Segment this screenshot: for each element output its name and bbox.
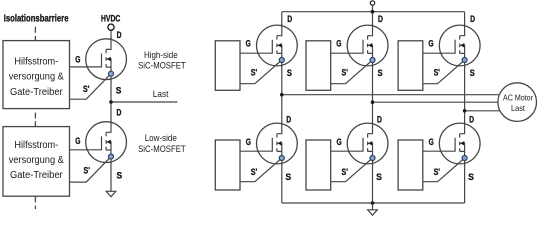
svg-text:SiC-MOSFET: SiC-MOSFET xyxy=(138,144,186,154)
svg-text:D: D xyxy=(470,14,475,24)
svg-text:S': S' xyxy=(251,67,257,77)
svg-text:S: S xyxy=(287,68,292,78)
svg-text:versorgung &: versorgung & xyxy=(9,155,64,166)
svg-text:G: G xyxy=(75,136,80,146)
svg-text:S: S xyxy=(116,85,122,95)
svg-text:HVDC: HVDC xyxy=(101,14,121,24)
svg-text:S': S' xyxy=(342,167,348,177)
svg-text:S': S' xyxy=(342,67,348,77)
svg-text:D: D xyxy=(469,115,474,125)
svg-text:S': S' xyxy=(251,167,257,177)
svg-text:S: S xyxy=(286,172,292,182)
svg-text:Isolationsbarriere: Isolationsbarriere xyxy=(4,14,69,25)
svg-text:G: G xyxy=(246,38,251,48)
svg-text:D: D xyxy=(287,14,292,24)
svg-text:G: G xyxy=(337,137,342,147)
svg-text:Gate-Treiber: Gate-Treiber xyxy=(10,87,63,98)
svg-text:D: D xyxy=(378,14,383,24)
svg-text:S': S' xyxy=(84,166,90,176)
svg-text:versorgung &: versorgung & xyxy=(9,72,64,83)
svg-text:S: S xyxy=(470,68,475,78)
svg-text:S': S' xyxy=(83,84,89,94)
svg-text:D: D xyxy=(377,115,382,125)
svg-text:D: D xyxy=(117,30,122,40)
svg-text:SiC-MOSFET: SiC-MOSFET xyxy=(138,60,186,70)
svg-text:G: G xyxy=(246,137,251,147)
svg-text:Last: Last xyxy=(511,103,526,113)
svg-text:High-side: High-side xyxy=(144,50,178,60)
svg-text:AC Motor: AC Motor xyxy=(503,92,533,102)
svg-text:Last: Last xyxy=(153,89,169,100)
svg-text:D: D xyxy=(117,108,122,118)
svg-text:Low-side: Low-side xyxy=(145,133,177,143)
svg-text:S: S xyxy=(376,172,382,182)
svg-text:S': S' xyxy=(434,67,440,77)
svg-text:Gate-Treiber: Gate-Treiber xyxy=(10,170,63,181)
svg-text:D: D xyxy=(286,115,291,125)
svg-text:G: G xyxy=(336,38,341,48)
svg-text:Hilfsstrom-: Hilfsstrom- xyxy=(14,140,58,151)
svg-text:G: G xyxy=(429,137,434,147)
svg-text:G: G xyxy=(75,55,80,65)
svg-text:Hilfsstrom-: Hilfsstrom- xyxy=(14,57,58,68)
svg-text:G: G xyxy=(428,38,433,48)
svg-text:S': S' xyxy=(434,167,440,177)
svg-text:S: S xyxy=(117,171,123,181)
svg-text:S: S xyxy=(468,172,474,182)
svg-text:S: S xyxy=(378,68,383,78)
